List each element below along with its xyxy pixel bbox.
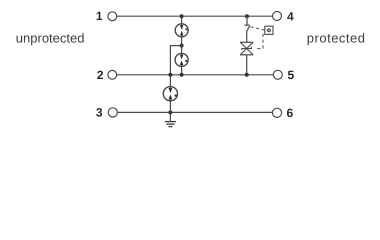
svg-text:4: 4 — [287, 9, 294, 23]
junction mid node between F1 and F2 — [180, 44, 184, 48]
thermal disconnect switch — [244, 25, 249, 32]
wire switch to suppressor diode — [246, 32, 248, 42]
gas discharge tube F2 (between mid node and line 2) — [175, 53, 188, 66]
wire line 1 (terminal 1 to terminal 4) — [117, 15, 273, 17]
wire from line 1 down to gas discharge tube F1 — [181, 16, 183, 24]
wire F2 bottom to line 2 — [181, 66, 183, 74]
wire from mid node left and down to line 2 and F3 — [170, 46, 181, 87]
svg-text:2: 2 — [97, 68, 104, 82]
gas discharge tube F3 (between line 2 and line 3 / ground) — [163, 87, 177, 101]
junction on line 2 at F3 column — [168, 73, 172, 77]
status indicator box — [265, 26, 273, 34]
wire line 3 (terminal 3 to terminal 6) — [117, 111, 272, 113]
junction on line 1 at F1 tap — [180, 14, 184, 18]
terminal 6 — [272, 106, 293, 120]
wire line 2 (terminal 2 to terminal 5) — [117, 74, 273, 76]
suppressor diode (bidirectional TVS) — [240, 42, 253, 55]
wire F3 bottom through line 3 to ground — [169, 101, 171, 122]
wire F1 bottom to F2 top through mid node — [181, 37, 183, 54]
gas discharge tube F1 (between line 1 and mid node) — [175, 24, 188, 37]
wire suppressor diode to line 2 — [246, 55, 248, 75]
terminal 2 — [97, 68, 117, 82]
terminal 1 — [96, 9, 117, 23]
dashed link switch to status indicator — [250, 27, 264, 30]
svg-text:unprotected: unprotected — [16, 31, 85, 46]
terminal 3 — [96, 106, 118, 120]
svg-text:3: 3 — [96, 106, 103, 120]
svg-text:protected: protected — [307, 30, 366, 45]
junction on line 1 at protection branch — [245, 14, 249, 18]
svg-text:1: 1 — [96, 9, 103, 23]
wire line 1 down to disconnect switch — [246, 16, 248, 25]
junction on line 2 at F2 — [180, 73, 184, 77]
terminal 5 — [273, 68, 294, 82]
junction on line 2 at protection branch — [245, 73, 249, 77]
terminal 4 — [273, 9, 295, 23]
junction on line 3 at ground column — [168, 110, 172, 114]
dashed link indicator box down to diode — [255, 34, 263, 49]
svg-text:6: 6 — [287, 106, 294, 120]
svg-text:5: 5 — [288, 68, 295, 82]
ground — [165, 122, 176, 127]
